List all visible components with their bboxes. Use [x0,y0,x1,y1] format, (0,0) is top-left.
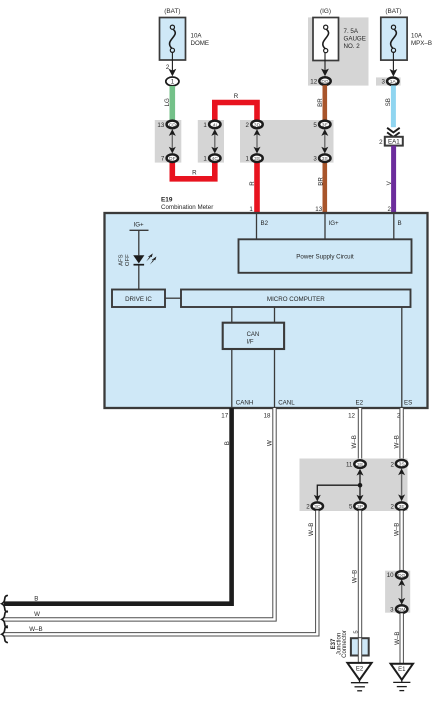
svg-text:B: B [34,595,38,602]
svg-text:17: 17 [221,413,228,420]
svg-text:2: 2 [379,139,383,146]
power supply circuit box [239,239,412,272]
combination meter E19 body [105,213,428,408]
svg-text:W–B: W–B [351,570,358,583]
wire LED to drive IC [138,266,140,290]
svg-text:DOME: DOME [191,40,210,47]
wire W-B meter E2 to 3S [351,408,360,460]
wire BR: 3S down to meter IG+ [318,162,325,214]
wire W (white) CANL down and left off-page [4,408,275,619]
wire R: 3S down to meter B2 [249,162,257,214]
svg-text:3S: 3S [399,462,406,468]
svg-text:E2: E2 [356,667,364,673]
svg-text:3: 3 [390,606,394,613]
in-line connector pair 4I/4C [203,121,220,163]
svg-text:1: 1 [249,206,253,213]
svg-text:W–B: W–B [393,435,400,448]
off-page brace wire W [2,611,40,628]
connector oval DG pin 12 [310,77,330,85]
svg-text:5: 5 [349,504,353,511]
svg-text:1: 1 [246,156,250,163]
wire SB (sky blue) 1A to EA1 [385,85,394,127]
branch wire 3S to 3E [401,472,403,497]
svg-text:3: 3 [382,79,386,86]
fuse DOME output pin 2 arrow [166,52,176,76]
internal wire micro computer to CAN I/F (CANL) [274,307,276,323]
svg-text:E19: E19 [161,197,173,204]
svg-text:DF: DF [169,156,176,162]
svg-text:2: 2 [391,504,395,511]
junction block shade (GAUGE NO.2 fuse holder) [308,17,369,85]
connector oval 1 (DOME fuse) [166,77,179,86]
svg-text:DG: DG [398,573,406,579]
junction EA1 pin 2 [379,137,403,146]
svg-text:1: 1 [203,122,207,129]
svg-text:13: 13 [157,122,164,129]
svg-text:CAN: CAN [247,332,260,338]
internal wire B2 to power supply [256,213,258,239]
svg-text:BR: BR [318,177,325,186]
connector block CD/DF shade [155,120,182,163]
off-page brace wire W-B [2,626,43,642]
fuse 7.5A GAUGE NO.2 [313,8,366,61]
connector shade 1A [376,77,401,85]
connector 3P pin 5 [349,495,366,511]
meter top pin names [261,220,402,227]
internal IG+ feed to LED [130,222,149,256]
svg-text:W: W [266,440,273,446]
svg-text:Combination Meter: Combination Meter [161,204,213,211]
svg-text:11: 11 [346,461,353,468]
svg-text:W–B: W–B [29,626,42,633]
junction dot [358,483,363,488]
svg-text:MPX–B: MPX–B [411,40,432,47]
wire V (violet) EA1 to meter pin B [386,146,393,214]
svg-text:3S: 3S [322,156,329,162]
svg-text:MICRO COMPUTER: MICRO COMPUTER [267,296,325,303]
svg-text:3E: 3E [399,504,406,510]
svg-text:B: B [224,441,231,445]
svg-text:E1: E1 [398,667,406,673]
in-line connector pair 3E/3S [313,121,330,163]
svg-text:W–B: W–B [394,631,401,644]
E37 junction connector [331,630,369,658]
svg-text:(BAT): (BAT) [164,8,180,15]
svg-text:AFS: AFS [118,254,124,266]
meter bottom pin names [236,400,412,407]
svg-text:2: 2 [391,461,395,468]
svg-text:1A: 1A [390,79,397,85]
svg-text:R: R [234,93,239,100]
branch wire dot to 3C [317,485,360,497]
svg-text:W–B: W–B [308,523,315,536]
svg-text:3S: 3S [254,156,261,162]
internal wire micro computer to CAN I/F (CANH) [231,307,233,323]
svg-text:W–B: W–B [351,435,358,448]
junction block shade 3S/3C/3P/3E [300,459,408,512]
svg-text:10: 10 [387,572,394,579]
connector 3S pin 2 (right) [391,460,408,475]
svg-text:18: 18 [264,413,271,420]
svg-text:3S: 3S [357,462,364,468]
fuse 10A DOME [160,8,210,60]
svg-text:CD: CD [169,122,177,128]
svg-text:W: W [34,611,40,618]
wire R: DF down-over to 4C [172,162,215,179]
connector block 4I/4C shade [198,120,224,163]
svg-text:1: 1 [203,156,207,163]
wire drive IC to micro computer [165,297,181,299]
wire W-B 3P down to E37 [351,511,360,639]
fuse MPX-B output pin 3 arrow [390,52,398,76]
svg-text:R: R [249,181,256,186]
wire R: 4I up-over to 3D [215,93,257,121]
fuse GAUGE output pin 12 arrow [321,53,329,76]
svg-text:DG: DG [321,79,329,85]
svg-text:3P: 3P [357,504,363,510]
wire W-B 3C down and left off-page [4,511,317,635]
svg-text:DRIVE IC: DRIVE IC [125,296,152,303]
svg-text:2: 2 [306,504,310,511]
wire E37 to ground E2 [358,638,362,655]
connector block shade DG/DM [385,571,410,613]
svg-text:I/F: I/F [247,339,254,345]
in-line connector pair DG/DM [387,571,408,613]
in-line connector pair CD/DF [157,121,178,163]
meter bottom pin numbers [221,413,404,420]
svg-text:CANH: CANH [236,400,254,407]
svg-text:GAUGE: GAUGE [344,35,366,42]
connector oval 1A pin 3 [382,78,399,86]
svg-text:(IG): (IG) [320,8,331,15]
svg-text:2: 2 [246,122,250,129]
wire W-B DM to ground E1 [394,613,402,664]
svg-text:R: R [192,170,197,177]
ground E1 [391,664,413,691]
in-line connector pair 3D/3S [246,121,263,163]
junction block shade 3D/3S/3E [240,120,334,163]
svg-text:EA1: EA1 [388,139,400,146]
svg-text:5: 5 [313,122,317,129]
internal wire CAN I/F to CANL pin [274,349,276,408]
svg-text:Connector: Connector [342,630,348,658]
connector 3E pin 2 [391,494,408,510]
svg-text:(BAT): (BAT) [385,8,401,15]
svg-text:2: 2 [166,64,170,71]
svg-text:4C: 4C [212,156,219,162]
svg-text:IG+: IG+ [134,222,145,229]
wire W-B 3E down to DG [393,511,401,572]
svg-text:IG+: IG+ [329,220,340,227]
internal wire IG+ to power supply [324,213,326,239]
svg-text:B: B [398,220,402,227]
ground E2 [347,663,371,691]
svg-text:5: 5 [354,630,360,633]
svg-text:7. 5A: 7. 5A [344,28,359,35]
meter top pin numbers [249,206,391,213]
svg-text:B2: B2 [261,220,269,227]
wire LG (light green) fuse DOME to CD [164,86,172,121]
svg-text:ES: ES [404,400,412,407]
svg-text:LG: LG [164,98,171,106]
fuse 10A MPX-B [381,8,432,60]
svg-text:12: 12 [348,413,355,420]
wire B (black) CANH down and left off-page [4,408,232,604]
svg-text:3E: 3E [322,122,329,128]
svg-text:12: 12 [310,79,317,86]
svg-text:DM: DM [398,607,406,613]
svg-text:3C: 3C [314,504,321,510]
LED AFS OFF indicator [118,253,156,266]
svg-text:Power Supply Circuit: Power Supply Circuit [296,254,354,261]
svg-text:10A: 10A [411,33,423,40]
internal wire B to power supply [393,213,395,239]
svg-text:3: 3 [313,156,317,163]
branch wire 3S to junction dot [359,472,361,497]
wire W-B meter ES to 3S [393,408,401,460]
svg-text:OFF: OFF [125,254,131,266]
E19 combination meter label [161,197,213,212]
connector 3C pin 2 [306,495,323,511]
svg-text:2: 2 [388,206,392,213]
internal wire CAN I/F to CANH pin [231,349,233,408]
wire BR (brown) DG to 3E [317,85,325,120]
internal wire micro computer to ES pin [401,307,403,408]
svg-text:BR: BR [317,98,324,107]
svg-text:NO. 2: NO. 2 [344,43,361,50]
off-page brace wire B [2,595,39,612]
svg-text:W–B: W–B [393,523,400,536]
drive IC box [112,290,165,308]
svg-text:4I: 4I [213,122,217,128]
svg-text:SB: SB [385,98,392,106]
svg-text:CANL: CANL [278,400,295,407]
CAN I/F box [223,323,284,349]
svg-text:7: 7 [161,156,165,163]
svg-text:3D: 3D [254,122,261,128]
svg-text:10A: 10A [191,33,203,40]
micro computer box [181,290,411,308]
splice EA1 chevrons [387,128,400,137]
svg-text:E2: E2 [356,400,364,407]
connector 3S pin 11 [346,460,366,475]
svg-text:13: 13 [315,206,322,213]
